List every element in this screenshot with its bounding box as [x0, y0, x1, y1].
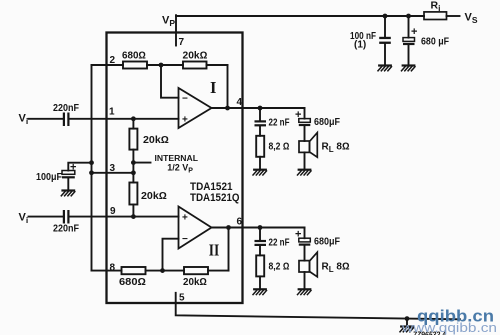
wire pin2 row: [92, 64, 124, 66]
svg-text:+: +: [182, 115, 188, 126]
svg-text:8,2 Ω: 8,2 Ω: [269, 262, 290, 273]
svg-text:220nF: 220nF: [53, 103, 79, 114]
svg-text:20kΩ: 20kΩ: [143, 135, 169, 146]
svg-text:680μF: 680μF: [314, 237, 340, 248]
svg-text:1: 1: [109, 106, 115, 117]
capacitor 680uF output ch2: [304, 228, 306, 239]
resistor 680ohm ch1: [123, 62, 147, 69]
svg-text:INTERNAL: INTERNAL: [155, 153, 199, 163]
ground: [402, 66, 416, 71]
wire external bus pins 2-3-8: [91, 65, 93, 271]
node dot pin1/divider: [131, 116, 136, 121]
IC box TDA1521: [107, 33, 243, 304]
svg-text:+: +: [411, 26, 417, 38]
op-amp I triangle: [179, 88, 212, 128]
svg-text:22 nF: 22 nF: [269, 237, 290, 248]
resistor 20k feedback ch1: [183, 62, 207, 69]
wire pin8 row: [92, 270, 122, 272]
capacitor 22nF ch1: [255, 120, 267, 126]
ground: [298, 289, 312, 294]
resistor 680ohm ch2: [122, 267, 146, 274]
wire to Vs: [447, 15, 460, 17]
svg-text:680 μF: 680 μF: [421, 37, 449, 48]
ground: [61, 191, 75, 196]
loudspeaker RL ch1: [299, 141, 310, 152]
wire feedback rise ch2: [228, 228, 230, 271]
svg-text:+: +: [182, 213, 188, 224]
svg-text:II: II: [209, 240, 220, 259]
svg-text:20kΩ: 20kΩ: [183, 277, 207, 288]
node dot: [159, 63, 164, 68]
wire pin5 ground line: [176, 293, 460, 320]
svg-text:20kΩ: 20kΩ: [183, 51, 208, 62]
capacitor 220nF input2: [63, 210, 70, 224]
wire divider chain: [132, 119, 134, 129]
wire inverting input link ch2: [163, 239, 179, 271]
ground: [253, 289, 267, 294]
svg-text:RL 8Ω: RL 8Ω: [322, 142, 350, 155]
resistor Ri: [424, 12, 447, 20]
svg-text:−: −: [182, 94, 188, 105]
loudspeaker RL ch2: [299, 261, 310, 272]
svg-text:680Ω: 680Ω: [122, 51, 146, 62]
wire output ch2 row: [212, 227, 305, 229]
svg-text:www.qqibb.cn: www.qqibb.cn: [401, 320, 497, 335]
resistor 8.2ohm ch1: [256, 136, 264, 157]
wire feedback drop ch1: [227, 65, 229, 108]
svg-text:I: I: [210, 78, 216, 97]
ground: [400, 327, 414, 332]
leader dash INTERNAL: [134, 162, 151, 164]
svg-text:4: 4: [237, 97, 243, 108]
node junction dots on rail: [383, 14, 411, 19]
wire input2 row: [29, 216, 63, 218]
svg-text:7: 7: [179, 37, 185, 48]
svg-text:100μF: 100μF: [36, 172, 62, 183]
svg-text:+: +: [295, 109, 301, 121]
svg-text:8,2 Ω: 8,2 Ω: [269, 142, 290, 153]
wire: [207, 64, 228, 66]
svg-text:9: 9: [110, 206, 116, 217]
svg-text:3: 3: [110, 163, 116, 174]
resistor 20k divider bottom: [129, 183, 137, 205]
wire pin7 stub: [175, 15, 177, 45]
svg-text:2: 2: [110, 55, 116, 66]
svg-text:8: 8: [110, 262, 116, 273]
svg-text:(1): (1): [354, 40, 366, 51]
Zobel ch2: wire: [259, 228, 261, 240]
svg-text:6: 6: [237, 217, 243, 228]
ground: [298, 170, 312, 175]
capacitor C 100nF supply: [384, 16, 386, 37]
wire output ch1 row: [212, 107, 305, 109]
capacitor 680uF output ch1: [304, 108, 306, 119]
svg-text:5: 5: [179, 293, 185, 304]
svg-text:220nF: 220nF: [53, 224, 79, 235]
svg-text:680Ω: 680Ω: [119, 277, 146, 288]
svg-text:RL 8Ω: RL 8Ω: [322, 262, 350, 275]
capacitor 22nF ch2: [255, 240, 267, 246]
wire inverting input link ch1: [161, 65, 179, 98]
capacitor 100uF half-supply: [68, 163, 91, 171]
op-amp II triangle: [179, 207, 212, 249]
Zobel ch1: wire: [259, 108, 261, 120]
node internal half-Vp dot: [131, 160, 136, 165]
svg-text:−: −: [182, 234, 188, 245]
wire: [147, 64, 183, 66]
svg-text:+: +: [70, 162, 76, 174]
svg-text:+: +: [295, 229, 301, 241]
wire input1 row: [29, 118, 63, 120]
svg-text:22 nF: 22 nF: [269, 118, 290, 129]
svg-text:TDA1521Q: TDA1521Q: [190, 192, 240, 204]
capacitor 220nF input1: [63, 113, 70, 127]
wire Vp rail: [176, 15, 424, 17]
ground: [253, 170, 267, 175]
resistor 20k feedback ch2: [184, 267, 208, 274]
resistor 8.2ohm ch2: [256, 255, 264, 276]
resistor 20k divider top: [129, 129, 137, 150]
svg-text:20kΩ: 20kΩ: [141, 191, 167, 202]
capacitor C 680uF supply: [408, 16, 410, 38]
wire pin3 row: [92, 172, 134, 174]
ground: [378, 66, 392, 71]
svg-text:680μF: 680μF: [314, 117, 340, 128]
